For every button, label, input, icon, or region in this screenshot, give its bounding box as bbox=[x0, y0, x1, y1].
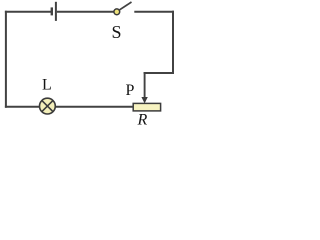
battery B1 long plate bbox=[55, 2, 57, 21]
wire elbow to wiper bbox=[144, 72, 174, 74]
switch S pivot bbox=[114, 9, 120, 15]
wire battery to switch bbox=[57, 11, 114, 13]
svg-text:S: S bbox=[112, 22, 122, 42]
lamp L cross stroke 1 bbox=[42, 101, 53, 112]
wire right side down bbox=[172, 11, 174, 74]
lamp L cross stroke 2 bbox=[42, 101, 53, 112]
wire rheostat to lamp bbox=[56, 106, 134, 108]
wiper arrow shaft bbox=[144, 72, 146, 98]
wiper arrowhead bbox=[141, 97, 147, 103]
switch S blade (open) bbox=[119, 2, 131, 10]
wire switch to top-right corner bbox=[134, 11, 174, 13]
svg-text:R: R bbox=[137, 112, 148, 128]
wire left side up bbox=[5, 11, 7, 108]
wire top-left segment bbox=[5, 11, 51, 13]
rheostat R body bbox=[133, 103, 160, 111]
lamp L body bbox=[40, 98, 56, 114]
wire lamp to bottom-left corner bbox=[5, 106, 39, 108]
svg-text:L: L bbox=[42, 76, 52, 93]
svg-text:P: P bbox=[126, 82, 135, 99]
battery B1 short plate bbox=[51, 7, 53, 15]
